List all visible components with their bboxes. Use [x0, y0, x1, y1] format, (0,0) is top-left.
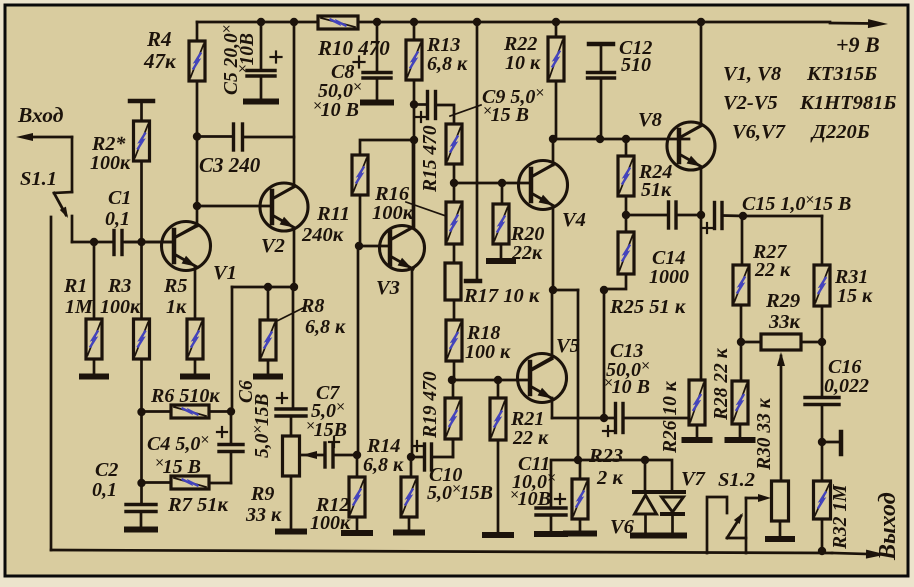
svg-text:6,8 к: 6,8 к — [305, 316, 346, 338]
svg-text:6,8 к: 6,8 к — [427, 53, 468, 75]
svg-text:КТ315Б: КТ315Б — [806, 63, 877, 85]
svg-text:R4: R4 — [146, 27, 172, 51]
svg-text:V5: V5 — [556, 335, 580, 357]
svg-text:+9 В: +9 В — [836, 32, 880, 57]
svg-text:0,022: 0,022 — [824, 375, 869, 397]
svg-text:R26 10 к: R26 10 к — [660, 380, 681, 454]
svg-text:100к: 100к — [372, 202, 414, 224]
svg-text:С2: С2 — [95, 459, 118, 481]
svg-text:К1НТ981Б: К1НТ981Б — [799, 92, 896, 114]
svg-text:˟10В: ˟10В — [237, 33, 258, 73]
svg-text:R8: R8 — [300, 295, 324, 317]
svg-text:R11: R11 — [316, 203, 350, 225]
svg-text:R9: R9 — [250, 483, 274, 505]
svg-text:R17 10 к: R17 10 к — [463, 285, 540, 307]
svg-text:R6 510к: R6 510к — [150, 385, 220, 407]
svg-text:С3 240: С3 240 — [199, 153, 261, 177]
svg-text:V1: V1 — [213, 262, 237, 284]
svg-text:100к: 100к — [90, 152, 131, 174]
svg-text:240к: 240к — [301, 224, 344, 246]
svg-text:V7: V7 — [681, 468, 706, 490]
svg-text:˟15 В: ˟15 В — [483, 104, 529, 126]
svg-text:R23: R23 — [588, 445, 623, 467]
svg-text:R28 22 к: R28 22 к — [711, 347, 732, 421]
svg-text:1к: 1к — [166, 296, 187, 318]
svg-text:Вход: Вход — [17, 103, 64, 127]
svg-text:˟15В: ˟15В — [306, 419, 347, 441]
svg-text:R7 51к: R7 51к — [167, 494, 229, 516]
svg-text:R5: R5 — [163, 275, 187, 297]
svg-text:Выход: Выход — [875, 492, 901, 561]
svg-text:0,1: 0,1 — [92, 479, 117, 501]
svg-text:33к: 33к — [768, 311, 801, 333]
svg-text:R32 1М: R32 1М — [830, 484, 851, 550]
svg-text:R25 51 к: R25 51 к — [609, 296, 686, 318]
svg-text:V2-V5: V2-V5 — [723, 92, 778, 114]
svg-text:Д220Б: Д220Б — [810, 121, 870, 143]
svg-text:1000: 1000 — [649, 266, 689, 288]
svg-text:С15 1,0˟15 В: С15 1,0˟15 В — [742, 193, 851, 215]
svg-text:22к: 22к — [511, 242, 543, 264]
svg-text:˟10 В: ˟10 В — [604, 376, 650, 398]
svg-text:R10 470: R10 470 — [317, 36, 390, 60]
svg-text:47к: 47к — [143, 49, 177, 73]
svg-text:510: 510 — [621, 54, 651, 76]
svg-text:5,0˟15В: 5,0˟15В — [427, 482, 493, 504]
svg-text:S1.1: S1.1 — [20, 168, 57, 190]
svg-text:100к: 100к — [310, 512, 351, 534]
svg-text:V2: V2 — [261, 235, 285, 257]
svg-text:˟15 В: ˟15 В — [155, 456, 201, 478]
svg-text:S1.2: S1.2 — [718, 469, 755, 491]
svg-text:V4: V4 — [562, 209, 586, 231]
svg-text:33 к: 33 к — [245, 504, 282, 526]
svg-text:V6: V6 — [610, 516, 635, 538]
svg-text:6,8 к: 6,8 к — [363, 454, 404, 476]
svg-text:R19 470: R19 470 — [420, 371, 441, 439]
svg-text:1М: 1М — [65, 296, 94, 318]
svg-text:С4 5,0˟: С4 5,0˟ — [147, 433, 208, 455]
svg-text:R30 33 к: R30 33 к — [754, 397, 775, 471]
svg-text:R15 470: R15 470 — [420, 125, 441, 193]
svg-text:R29: R29 — [765, 290, 800, 312]
svg-text:V3: V3 — [376, 277, 400, 299]
svg-text:100 к: 100 к — [465, 341, 511, 363]
svg-text:22 к: 22 к — [754, 259, 791, 281]
svg-text:˟10 В: ˟10 В — [313, 99, 359, 121]
svg-text:V8: V8 — [638, 109, 662, 131]
svg-text:R1: R1 — [63, 275, 87, 297]
svg-text:100к: 100к — [100, 296, 141, 318]
svg-text:˟10В: ˟10В — [510, 488, 551, 510]
svg-text:51к: 51к — [641, 179, 672, 201]
svg-text:5,0˟15В: 5,0˟15В — [252, 394, 273, 458]
svg-text:15 к: 15 к — [837, 285, 873, 307]
svg-text:0,1: 0,1 — [105, 208, 130, 230]
svg-text:V1, V8: V1, V8 — [723, 63, 781, 85]
svg-text:V6,V7: V6,V7 — [732, 121, 786, 143]
svg-text:С1: С1 — [108, 187, 131, 209]
svg-text:R3: R3 — [107, 275, 131, 297]
svg-text:10 к: 10 к — [505, 52, 541, 74]
svg-text:2 к: 2 к — [596, 467, 623, 489]
svg-text:22 к: 22 к — [512, 427, 549, 449]
